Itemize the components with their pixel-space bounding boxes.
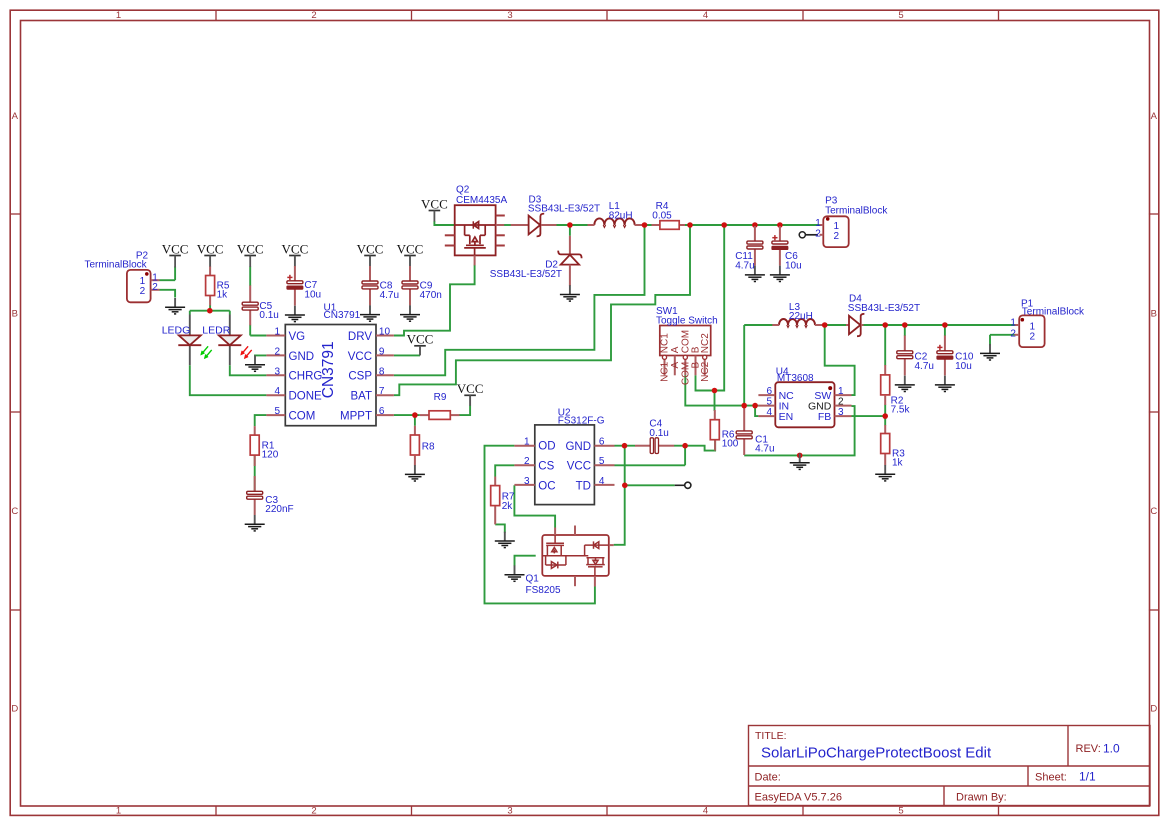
svg-text:10u: 10u <box>785 261 802 272</box>
R7 pin stubs <box>494 477 496 486</box>
wire VCC to Q2 <box>434 221 454 225</box>
C11 pin stubs <box>754 226 756 241</box>
svg-text:470n: 470n <box>420 290 442 301</box>
svg-text:GND: GND <box>565 441 591 453</box>
svg-text:10u: 10u <box>304 290 321 301</box>
wire C5 to VG lower <box>249 325 251 336</box>
junction GND rail <box>797 453 803 459</box>
ground at D2 <box>560 285 580 301</box>
junction R4 out <box>687 222 693 228</box>
ground at U1 GND <box>245 355 265 371</box>
wire SW1 COM to IN <box>685 375 755 405</box>
wire R9 to VCC <box>459 406 470 416</box>
C6 pin stubs <box>779 226 781 241</box>
wire L1 to R4 <box>635 224 652 226</box>
C7 pin stubs <box>294 266 296 281</box>
svg-text:2: 2 <box>311 805 316 816</box>
wire SW1 B <box>696 375 715 390</box>
capacitor C9 <box>402 281 442 301</box>
ground at Q1 source <box>505 565 525 581</box>
svg-text:0.1u: 0.1u <box>259 310 278 321</box>
power flag VCC at R5 <box>197 241 224 256</box>
wire R4 to P3 <box>679 224 819 226</box>
svg-text:FB: FB <box>818 411 831 423</box>
wire OC to Q1 gate <box>514 485 555 527</box>
svg-text:SolarLiPoChargeProtectBoost Ed: SolarLiPoChargeProtectBoost Edit <box>761 745 992 762</box>
svg-text:7.5k: 7.5k <box>891 405 911 416</box>
svg-text:FS312F-G: FS312F-G <box>558 415 605 426</box>
wire R1 to C3 <box>254 455 256 491</box>
C1 pin stubs <box>743 407 745 431</box>
svg-text:4.7u: 4.7u <box>735 261 754 272</box>
junction L3/D4/SW <box>822 322 828 328</box>
no-connect flag on TD net <box>675 484 685 486</box>
VCC stem C7 <box>294 256 296 267</box>
wire to R8 <box>414 415 416 426</box>
transistor Q1 FS8205 (dual MOSFET) <box>526 526 614 596</box>
svg-text:0.1u: 0.1u <box>649 428 668 439</box>
wire P1.2 <box>990 334 1015 336</box>
svg-text:22uH: 22uH <box>789 311 813 322</box>
C2 pin stubs <box>904 336 906 351</box>
svg-text:1: 1 <box>116 10 121 21</box>
svg-text:2: 2 <box>815 229 821 240</box>
svg-text:DRV: DRV <box>348 331 372 343</box>
wire GND to C4 <box>615 445 636 447</box>
svg-text:CHRG: CHRG <box>289 371 323 383</box>
resistor R8 <box>410 435 435 455</box>
svg-text:5: 5 <box>898 805 903 816</box>
capacitor C10 (electrolytic) <box>937 345 974 372</box>
svg-text:Drawn By:: Drawn By: <box>956 792 1007 804</box>
VCC stem C9 <box>409 256 411 267</box>
svg-text:3: 3 <box>838 407 844 418</box>
power flag VCC at U1 pin9 <box>407 332 434 347</box>
svg-text:1.0: 1.0 <box>1103 742 1120 756</box>
svg-text:4: 4 <box>599 476 605 487</box>
wire GND pin2 <box>255 354 266 357</box>
wire R5 bottom <box>209 305 211 311</box>
ground at C8 <box>360 305 380 321</box>
svg-text:R8: R8 <box>422 441 435 452</box>
R3 pin stubs <box>884 425 886 434</box>
LED LEDR <box>202 315 251 366</box>
power flag VCC at Q2 <box>421 196 448 211</box>
svg-text:VCC: VCC <box>457 381 484 396</box>
wire SW to L3/D4 <box>825 325 855 395</box>
svg-text:COM: COM <box>289 411 316 423</box>
svg-text:TerminalBlock: TerminalBlock <box>1022 307 1085 318</box>
svg-text:VCC: VCC <box>407 332 434 347</box>
no-connect flag at P3 pin 2 <box>799 232 805 238</box>
wire C4 to R6 <box>674 440 715 451</box>
wire to R6 <box>714 391 716 412</box>
svg-text:3: 3 <box>507 10 512 21</box>
svg-text:Toggle Switch: Toggle Switch <box>656 316 718 327</box>
svg-text:GND: GND <box>808 400 832 412</box>
junction GND/C4 <box>622 443 628 449</box>
R1 pin stubs <box>254 426 256 435</box>
svg-text:4: 4 <box>274 386 280 397</box>
R8 pin stubs <box>414 426 416 435</box>
ground at C6 <box>770 266 790 282</box>
ground at R8 <box>405 465 425 481</box>
junction MPPT/R8/R9 <box>412 412 418 418</box>
junction C2 tap <box>902 322 908 328</box>
wire TD to NC flag <box>625 484 675 486</box>
svg-text:4.7u: 4.7u <box>380 290 399 301</box>
resistor R9 <box>429 392 450 419</box>
svg-text:D: D <box>11 704 18 715</box>
svg-text:9: 9 <box>379 346 385 357</box>
wire to D2 <box>569 227 571 236</box>
VCC stem R9 <box>469 395 471 406</box>
svg-text:1: 1 <box>116 805 121 816</box>
svg-text:7: 7 <box>379 386 385 397</box>
svg-text:TerminalBlock: TerminalBlock <box>84 259 147 270</box>
svg-text:NC2: NC2 <box>700 361 711 381</box>
wire to R2 <box>884 325 886 366</box>
svg-text:CS: CS <box>538 461 554 473</box>
svg-text:Date:: Date: <box>755 772 781 784</box>
wire BATP drop <box>715 225 725 391</box>
diode D2 SSB43L-E3/52T <box>490 236 582 286</box>
svg-text:A: A <box>670 361 681 368</box>
svg-text:4: 4 <box>766 407 772 418</box>
capacitor C3 <box>247 491 294 515</box>
svg-text:OD: OD <box>538 441 555 453</box>
junction C11 <box>752 222 758 228</box>
resistor R6 <box>710 420 739 450</box>
inductor L1 82uH <box>588 201 643 227</box>
resistor R3 <box>881 434 906 469</box>
wire COM to R1 <box>255 415 267 426</box>
R5 pin stubs <box>209 266 211 276</box>
C9 pin stubs <box>409 266 411 281</box>
svg-text:VCC: VCC <box>357 241 384 256</box>
junction R5/LED rail <box>207 308 213 314</box>
svg-text:Q1: Q1 <box>526 573 540 584</box>
resistor R1 <box>250 435 279 461</box>
svg-text:1/1: 1/1 <box>1079 770 1096 784</box>
power flag VCC at C7 <box>282 241 309 256</box>
junction C4/VCC <box>682 443 688 449</box>
R9 pin stubs <box>420 414 429 416</box>
wire CS to R7 <box>495 465 514 476</box>
wire L3 to D4 <box>815 324 846 326</box>
connector P3 TerminalBlock <box>815 196 888 248</box>
LED LEDG <box>162 315 212 366</box>
VCC stem R5 <box>209 256 211 267</box>
C5 pin stubs <box>249 285 251 302</box>
resistor R2 <box>881 375 911 416</box>
svg-text:3: 3 <box>507 805 512 816</box>
svg-text:2: 2 <box>1030 331 1036 342</box>
ground at C2 <box>895 376 915 392</box>
wire pin9 to VCC <box>394 354 420 356</box>
svg-text:10u: 10u <box>955 361 972 372</box>
svg-text:VCC: VCC <box>237 241 264 256</box>
wire BAT net <box>394 225 690 395</box>
capacitor C5 <box>242 301 279 321</box>
junction FB divider <box>882 413 888 419</box>
VCC stem Q2 <box>433 211 435 222</box>
power flag VCC at C5 <box>237 241 264 256</box>
switch SW1 Toggle Switch <box>656 306 718 385</box>
ground at P2 pin2 <box>165 298 185 314</box>
junction R6 top <box>712 388 718 394</box>
svg-text:VCC: VCC <box>162 241 189 256</box>
VCC stem C5 <box>249 256 251 268</box>
svg-text:SSB43L-E3/52T: SSB43L-E3/52T <box>528 204 600 215</box>
C10 pin stubs <box>944 336 946 351</box>
wire OD loop <box>485 446 595 604</box>
wire L3 drop <box>743 325 745 406</box>
svg-text:EasyEDA V5.7.26: EasyEDA V5.7.26 <box>755 792 842 804</box>
power flag VCC at C9 <box>397 241 424 256</box>
ground at C10 <box>935 376 955 392</box>
svg-text:A: A <box>1151 111 1158 122</box>
svg-text:A: A <box>12 111 19 122</box>
svg-text:8: 8 <box>379 366 385 377</box>
svg-text:5: 5 <box>898 10 903 21</box>
svg-text:2: 2 <box>311 10 316 21</box>
R4 pin stubs <box>652 224 660 226</box>
svg-text:A: A <box>670 346 681 353</box>
svg-text:1: 1 <box>838 386 844 397</box>
svg-text:120: 120 <box>262 450 279 461</box>
wire VCC to C5 <box>249 267 251 286</box>
svg-text:C: C <box>11 506 18 517</box>
junction TD line <box>622 483 628 489</box>
ground at R3 <box>875 465 895 481</box>
ground at C7 <box>285 306 305 322</box>
junction R2 tap <box>882 322 888 328</box>
svg-text:1: 1 <box>1010 318 1016 329</box>
svg-text:TD: TD <box>576 480 591 492</box>
wire Q1 S gnd <box>515 556 536 567</box>
svg-text:2: 2 <box>274 346 280 357</box>
capacitor C8 <box>362 281 399 301</box>
junction IN/EN <box>752 403 758 409</box>
wire DRV to Q2 gate <box>394 265 475 336</box>
junction BATP drop <box>721 222 727 228</box>
wire to LEDG <box>189 311 191 315</box>
IC U2 FS312F-G <box>514 408 614 505</box>
ground at C3 <box>245 515 265 531</box>
C8 pin stubs <box>369 266 371 281</box>
wire P2.1 to VCC <box>160 279 176 281</box>
title block text <box>755 730 1121 804</box>
svg-text:3: 3 <box>274 366 280 377</box>
svg-text:5: 5 <box>599 456 605 467</box>
svg-text:MPPT: MPPT <box>340 411 372 423</box>
resistor R4 <box>652 201 679 229</box>
svg-text:FS8205: FS8205 <box>526 585 561 596</box>
VCC stem C8 <box>369 256 371 267</box>
svg-text:Sheet:: Sheet: <box>1035 772 1067 784</box>
wire D3 to L1 <box>557 224 595 226</box>
svg-text:2: 2 <box>834 231 840 242</box>
svg-text:1k: 1k <box>892 458 904 469</box>
wire to L3 <box>744 324 779 326</box>
power flag VCC at R9 <box>457 381 484 396</box>
svg-text:VCC: VCC <box>567 461 591 473</box>
wire R7 gnd <box>495 524 505 532</box>
junction C10 tap <box>942 322 948 328</box>
wire P2.2 to ground <box>160 290 176 298</box>
svg-text:5: 5 <box>766 397 772 408</box>
ground at C9 <box>400 305 420 321</box>
svg-text:LEDG: LEDG <box>162 324 191 336</box>
svg-text:0.05: 0.05 <box>652 210 672 221</box>
svg-text:CSP: CSP <box>348 371 372 383</box>
wire LED top rail <box>190 310 230 312</box>
svg-text:2: 2 <box>524 456 530 467</box>
wire VCC stem lower <box>174 267 176 281</box>
IC U4 MT3608 <box>758 367 851 428</box>
connector P1 TerminalBlock <box>1010 299 1085 347</box>
wire Q2 to D3 <box>504 224 511 226</box>
op-amp / IC U1 CN3791 <box>266 303 394 426</box>
wire P3.2 no-connect lead <box>805 234 818 236</box>
svg-text:6: 6 <box>766 386 772 397</box>
power flag VCC at P2 pin1 <box>162 241 189 256</box>
svg-text:MT3608: MT3608 <box>777 373 814 384</box>
wire FB to divider <box>852 415 886 417</box>
svg-text:2: 2 <box>838 397 844 408</box>
svg-text:100: 100 <box>722 439 739 450</box>
svg-text:2: 2 <box>140 286 146 297</box>
wire to C2 <box>904 325 906 336</box>
wire to R3 <box>884 416 886 425</box>
capacitor C4 0.1u <box>635 419 674 454</box>
VCC stem P2 <box>174 256 176 268</box>
svg-text:TerminalBlock: TerminalBlock <box>825 205 888 216</box>
svg-text:REV:: REV: <box>1076 743 1101 755</box>
svg-text:2: 2 <box>152 282 158 293</box>
svg-text:R9: R9 <box>434 392 447 403</box>
wire VCC5 line <box>615 464 686 466</box>
ground at P1 pin2 <box>980 344 1000 360</box>
wire IN <box>755 405 758 407</box>
svg-text:B: B <box>12 309 18 320</box>
svg-text:82uH: 82uH <box>609 210 633 221</box>
wire R2 to FB node <box>884 405 886 417</box>
svg-text:1: 1 <box>524 436 530 447</box>
wire P1.2 gnd <box>989 335 991 346</box>
wire to LEDR <box>229 311 231 315</box>
svg-text:6: 6 <box>599 436 605 447</box>
R2 pin stubs <box>884 365 886 375</box>
svg-text:CN3791: CN3791 <box>320 341 337 398</box>
svg-text:4.7u: 4.7u <box>755 444 774 455</box>
wire CSP net <box>394 225 645 375</box>
transistor Q2 CEM4435A <box>445 185 508 266</box>
svg-text:SSB43L-E3/52T: SSB43L-E3/52T <box>490 269 562 280</box>
diode D3 SSB43L-E3/52T <box>496 194 601 236</box>
svg-text:1: 1 <box>815 218 821 229</box>
junction IN/L3/C1 <box>741 403 747 409</box>
svg-text:BAT: BAT <box>350 391 372 403</box>
svg-text:B: B <box>1151 309 1157 320</box>
wire C5 to VG <box>250 335 266 337</box>
svg-text:5: 5 <box>274 406 280 417</box>
capacitor C1 <box>736 431 774 455</box>
svg-text:SSB43L-E3/52T: SSB43L-E3/52T <box>848 303 920 314</box>
wire MPPT to R9 <box>394 414 420 416</box>
diode D4 SSB43L-E3/52T <box>846 293 920 336</box>
svg-text:4.7u: 4.7u <box>915 361 934 372</box>
wire C4 tap <box>684 446 686 466</box>
wire EN tie <box>755 406 758 417</box>
title block <box>749 726 1151 806</box>
capacitor C11 <box>735 241 763 271</box>
svg-text:TITLE:: TITLE: <box>755 730 787 742</box>
svg-text:220nF: 220nF <box>265 504 293 515</box>
wire LEDG to DONE <box>190 365 267 395</box>
svg-text:2: 2 <box>1010 328 1016 339</box>
C3 pin stubs <box>254 476 256 491</box>
svg-text:D: D <box>1150 704 1157 715</box>
wire D4 to P1 <box>864 324 1015 326</box>
svg-text:VCC: VCC <box>282 241 309 256</box>
resistor R7 <box>491 486 515 512</box>
svg-text:DONE: DONE <box>289 391 323 403</box>
svg-text:NC2: NC2 <box>700 333 711 353</box>
junction D3/D2 <box>567 222 573 228</box>
svg-text:VCC: VCC <box>421 196 448 211</box>
wire GND to Q1 <box>614 446 625 545</box>
ground at U4 rail <box>790 454 810 470</box>
svg-text:1k: 1k <box>217 290 229 301</box>
R6 pin stubs <box>714 410 716 420</box>
resistor R5 <box>206 276 230 301</box>
svg-text:C: C <box>1150 506 1157 517</box>
svg-text:6: 6 <box>379 406 385 417</box>
svg-text:CEM4435A: CEM4435A <box>456 195 507 206</box>
inductor L3 22uH <box>772 302 822 328</box>
svg-text:CN3791: CN3791 <box>324 310 361 321</box>
wire to C10 <box>944 325 946 336</box>
svg-text:4: 4 <box>703 10 708 21</box>
svg-text:10: 10 <box>379 327 391 338</box>
svg-text:2k: 2k <box>502 501 514 512</box>
svg-text:1: 1 <box>274 327 280 338</box>
ground at R7 <box>495 532 515 548</box>
svg-text:VCC: VCC <box>348 351 372 363</box>
power flag VCC at C8 <box>357 241 384 256</box>
wire U4 GND rail <box>744 406 854 455</box>
svg-text:OC: OC <box>538 480 555 492</box>
capacitor C7 (electrolytic) <box>287 275 321 301</box>
svg-text:EN: EN <box>779 411 794 423</box>
svg-text:GND: GND <box>289 351 315 363</box>
svg-text:4: 4 <box>703 805 708 816</box>
ground at C11 <box>745 266 765 282</box>
VCC stem pin9 <box>419 346 421 356</box>
connector P2 TerminalBlock <box>84 250 159 302</box>
capacitor C2 <box>897 351 934 372</box>
svg-text:VCC: VCC <box>197 241 224 256</box>
junction L1/R4 <box>642 222 648 228</box>
junction C6 <box>777 222 783 228</box>
svg-text:VG: VG <box>289 331 306 343</box>
svg-text:VCC: VCC <box>397 241 424 256</box>
svg-text:3: 3 <box>524 476 530 487</box>
svg-text:LEDR: LEDR <box>202 324 230 336</box>
wire LEDR to CHRG <box>230 365 267 375</box>
